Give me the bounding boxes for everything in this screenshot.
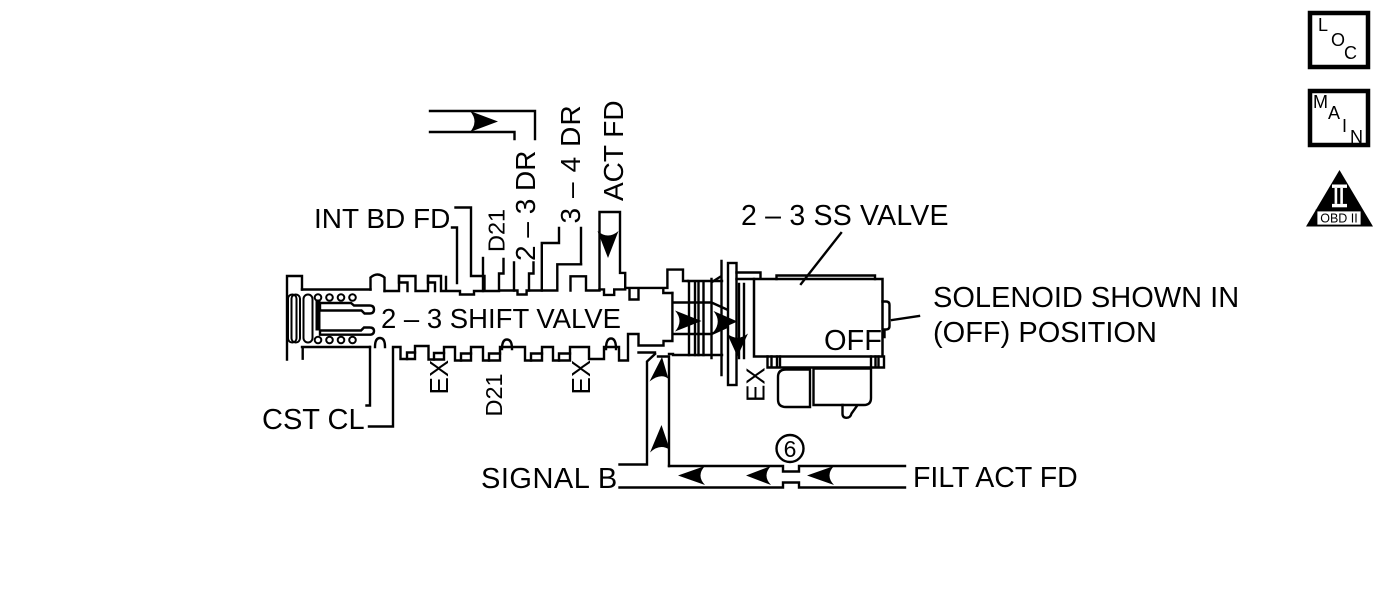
- svg-text:D21: D21: [484, 209, 510, 252]
- stack between valve and solenoid: [673, 261, 744, 385]
- svg-text:A: A: [1328, 103, 1340, 123]
- svg-text:EX: EX: [566, 360, 596, 395]
- SS valve leader line: [801, 233, 841, 284]
- svg-text:M: M: [1313, 92, 1328, 112]
- svg-text:CST CL: CST CL: [262, 404, 365, 436]
- svg-text:FILT ACT FD: FILT ACT FD: [913, 462, 1078, 494]
- valve top edge: [302, 259, 688, 300]
- svg-text:OFF: OFF: [824, 325, 882, 357]
- muffler tip: [843, 405, 857, 418]
- svg-text:SIGNAL B: SIGNAL B: [481, 463, 618, 495]
- 3-4 DR channel: [542, 228, 581, 291]
- LOC box: [1310, 13, 1368, 67]
- solenoid body: [754, 279, 883, 357]
- spring coils: [288, 294, 356, 343]
- svg-text:2 – 3 SHIFT VALVE: 2 – 3 SHIFT VALVE: [381, 303, 621, 334]
- svg-text:O: O: [1331, 30, 1345, 50]
- svg-text:2 – 3 SS VALVE: 2 – 3 SS VALVE: [741, 200, 949, 232]
- muffler left: [778, 370, 810, 408]
- svg-text:6: 6: [784, 436, 797, 462]
- stack arrow 2: [714, 311, 738, 332]
- MAIN box: [1310, 91, 1368, 147]
- valve outer left wall: [287, 276, 303, 360]
- svg-text:SOLENOID SHOWN IN: SOLENOID SHOWN IN: [933, 282, 1239, 314]
- ACT FD channel: [600, 212, 626, 289]
- top feed channel: [430, 111, 535, 139]
- svg-text:EX: EX: [424, 360, 454, 395]
- solenoid inlet bar: [737, 273, 761, 280]
- svg-text:N: N: [1350, 127, 1363, 147]
- solenoid right connector: [883, 302, 890, 338]
- svg-text:2 – 3 DR: 2 – 3 DR: [510, 151, 541, 262]
- CST CL channel: [367, 347, 394, 427]
- OBD II triangle: [1306, 170, 1373, 227]
- D21 top channel: [482, 258, 484, 291]
- signal up arrow 2: [650, 425, 670, 453]
- svg-text:OBD II: OBD II: [1320, 212, 1358, 226]
- solenoid flange: [768, 357, 885, 368]
- INT BD FD channel: [452, 208, 485, 291]
- bottom edge inner steps: [407, 353, 570, 361]
- solenoid leader line: [892, 316, 919, 320]
- svg-text:D21: D21: [481, 373, 507, 416]
- top bump tooth: [371, 275, 385, 292]
- bottom channel: [620, 466, 906, 488]
- svg-text:C: C: [1344, 43, 1357, 63]
- stack arrow 1: [675, 311, 702, 332]
- bottom rounded bumps: [375, 338, 616, 349]
- top edge inner steps: [399, 276, 435, 291]
- svg-text:3 – 4 DR: 3 – 4 DR: [555, 104, 586, 223]
- signal up arrow 1: [650, 357, 669, 382]
- solenoid raised top: [777, 276, 876, 280]
- svg-text:ACT FD: ACT FD: [598, 100, 629, 201]
- signal vertical channel: [620, 354, 670, 466]
- spool cup: [316, 300, 375, 335]
- stack down arrow: [727, 334, 748, 357]
- svg-text:(OFF) POSITION: (OFF) POSITION: [933, 317, 1157, 349]
- svg-text:EX: EX: [741, 367, 771, 402]
- svg-text:I: I: [1342, 116, 1347, 136]
- 2-3 DR channel stubs: [514, 263, 534, 291]
- top feed arrow: [470, 111, 498, 132]
- svg-text:L: L: [1318, 15, 1328, 35]
- bottom channel left arrows: [678, 466, 705, 485]
- valve bottom edge: [302, 293, 673, 361]
- orifice circled 6: [777, 435, 804, 462]
- muffler right: [814, 369, 872, 406]
- svg-text:INT BD FD: INT BD FD: [314, 203, 450, 234]
- ACT FD down arrow: [598, 231, 619, 258]
